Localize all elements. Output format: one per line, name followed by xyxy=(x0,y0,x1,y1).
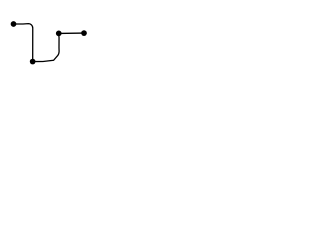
node C xyxy=(56,31,62,37)
wire from node C to node D xyxy=(59,32,84,34)
wire from node A right then down to node B xyxy=(14,24,33,62)
node A xyxy=(11,21,17,27)
node B xyxy=(30,59,36,65)
wire from node B right, curving up to node C xyxy=(33,33,60,61)
node D xyxy=(81,30,87,36)
